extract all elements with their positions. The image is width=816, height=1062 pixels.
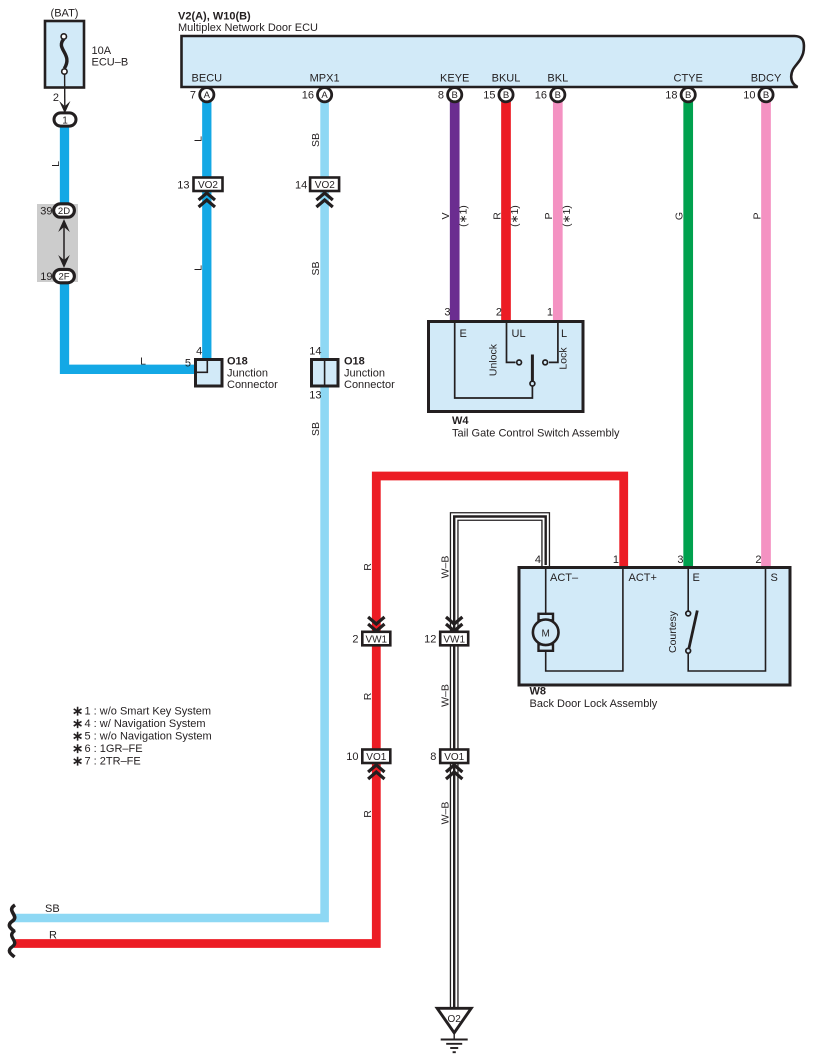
svg-text:W–B: W–B (440, 684, 452, 707)
svg-text:18: 18 (665, 90, 677, 102)
svg-text:10A: 10A (92, 45, 112, 57)
svg-text:B: B (685, 90, 691, 101)
wire W-B white core (454, 517, 546, 1009)
svg-text:VW1: VW1 (443, 634, 465, 645)
pin BKUL circle B (499, 88, 513, 102)
svg-text:O2: O2 (448, 1014, 462, 1025)
svg-text:SB: SB (45, 903, 60, 915)
svg-text:B: B (452, 90, 458, 101)
wire SB from MPX1 pin to left edge exit (light blue) (14, 98, 325, 918)
svg-text:14: 14 (309, 346, 321, 358)
svg-text:B: B (555, 90, 561, 101)
svg-text:Lock: Lock (558, 347, 570, 370)
svg-text:CTYE: CTYE (674, 73, 703, 85)
W4 switch pole (531, 355, 534, 382)
svg-text:10: 10 (346, 751, 358, 763)
svg-text:SB: SB (310, 261, 322, 275)
svg-text:(∗1): (∗1) (561, 205, 573, 227)
fuse 10A ECU-B box (45, 21, 84, 88)
svg-text:MPX1: MPX1 (310, 73, 340, 85)
svg-text:R: R (491, 212, 503, 220)
svg-text:BKUL: BKUL (492, 73, 521, 85)
Multiplex Network Door ECU banner (182, 36, 804, 87)
svg-text:VO1: VO1 (444, 752, 464, 763)
footnote asterisk stars (74, 707, 82, 766)
svg-text:W4: W4 (452, 415, 469, 427)
svg-text:7: 7 (190, 90, 196, 102)
courtesy switch blade (689, 611, 697, 649)
wire L from fuse to connector 2D (blue) (60, 125, 69, 207)
svg-text:B: B (763, 90, 769, 101)
svg-text:3: 3 (677, 554, 683, 566)
svg-text:ACT–: ACT– (550, 572, 579, 584)
svg-text:2: 2 (352, 634, 358, 646)
wire V from KEYE pin to W4 pin 3 (violet) (450, 98, 460, 322)
svg-text:O18: O18 (227, 356, 248, 368)
svg-text:Connector: Connector (227, 379, 278, 391)
svg-text:BKL: BKL (547, 73, 568, 85)
svg-text:Back Door Lock Assembly: Back Door Lock Assembly (530, 698, 658, 710)
svg-text:2D: 2D (58, 206, 70, 217)
junction connector O18 right (312, 360, 339, 387)
svg-text:BECU: BECU (192, 73, 223, 85)
svg-text:VO2: VO2 (315, 180, 335, 191)
break squiggle SB wire (9, 905, 15, 932)
svg-text:L: L (192, 265, 204, 271)
svg-text:O18: O18 (344, 356, 365, 368)
WIRES-LAYER (14, 98, 766, 1008)
svg-text:2F: 2F (58, 272, 69, 283)
arrow into node 1 (59, 101, 70, 113)
svg-text:2: 2 (53, 92, 59, 104)
svg-text:Multiplex Network Door ECU: Multiplex Network Door ECU (178, 22, 318, 34)
svg-text:R: R (362, 810, 374, 818)
connector VW1 pin 2 (368, 617, 384, 624)
svg-text:R: R (362, 563, 374, 571)
svg-text:1: 1 (547, 307, 553, 319)
fuse terminal top (61, 34, 66, 39)
svg-text:ECU–B: ECU–B (92, 57, 129, 69)
svg-text:4 : w/ Navigation System: 4 : w/ Navigation System (85, 718, 206, 730)
fuse element (61, 39, 67, 69)
W8 internal courtesy to S line (688, 569, 765, 671)
svg-text:P: P (751, 212, 763, 219)
connector 2D oval (54, 204, 75, 217)
svg-text:V2(A), W10(B): V2(A), W10(B) (178, 11, 251, 23)
svg-text:(∗1): (∗1) (458, 205, 470, 227)
wire W-B from W8 pin 4 through VW1, VO1 to ground O2 (white-black outer) (454, 517, 546, 1009)
svg-text:7 : 2TR–FE: 7 : 2TR–FE (85, 756, 141, 768)
break squiggle R wire (9, 931, 15, 958)
svg-text:E: E (693, 572, 700, 584)
svg-text:L: L (561, 328, 567, 340)
W8 internal courtesy switch E line (687, 569, 689, 611)
svg-text:39: 39 (40, 206, 52, 218)
connector block 2D/2F gray body (37, 204, 78, 282)
svg-text:Tail Gate Control Switch Assem: Tail Gate Control Switch Assembly (452, 428, 620, 440)
W8 internal ACT- line to motor (545, 569, 547, 614)
svg-text:Connector: Connector (344, 379, 395, 391)
svg-text:BDCY: BDCY (751, 73, 782, 85)
svg-text:Courtesy: Courtesy (667, 610, 679, 653)
svg-text:L: L (192, 136, 204, 142)
svg-text:Unlock: Unlock (488, 343, 500, 376)
svg-text:M: M (542, 628, 550, 639)
junction connector O18 left (196, 360, 223, 387)
W8 Back Door Lock Assembly box (519, 568, 790, 686)
motor M brush bottom (539, 644, 554, 651)
svg-text:16: 16 (302, 90, 314, 102)
svg-text:A: A (321, 90, 328, 101)
svg-text:KEYE: KEYE (440, 73, 469, 85)
svg-text:5: 5 (185, 358, 191, 370)
svg-text:W–B: W–B (440, 556, 452, 579)
node 1 oval (54, 113, 76, 126)
motor M body (533, 620, 559, 646)
wire from fuse to node 1 (64, 75, 66, 107)
motor M brush top (539, 614, 554, 621)
connector VO1 pin 10 (362, 750, 390, 764)
svg-text:V: V (440, 212, 452, 219)
svg-text:15: 15 (483, 90, 495, 102)
svg-text:G: G (674, 212, 686, 220)
svg-text:4: 4 (196, 346, 202, 358)
wire G from CTYE pin to W8 pin 3 (green) (683, 98, 693, 568)
connector 2F oval (54, 269, 75, 282)
svg-text:14: 14 (295, 180, 307, 192)
svg-text:ACT+: ACT+ (629, 572, 657, 584)
svg-text:4: 4 (535, 554, 541, 566)
pin BECU circle A (200, 88, 214, 102)
connector VO2 pin 14 (310, 178, 339, 192)
svg-text:8: 8 (438, 90, 444, 102)
svg-text:SB: SB (310, 133, 322, 147)
ground O2 symbol (437, 1008, 471, 1033)
wire L from BECU pin to junction O18 (blue) (202, 98, 211, 361)
svg-text:1 : w/o Smart Key System: 1 : w/o Smart Key System (85, 706, 212, 718)
fuse terminal bottom (62, 69, 67, 74)
svg-text:VO2: VO2 (198, 180, 218, 191)
svg-text:Junction: Junction (344, 368, 385, 380)
W4 internal L line (549, 323, 558, 362)
svg-text:P: P (543, 212, 555, 219)
svg-text:3: 3 (444, 307, 450, 319)
svg-text:1: 1 (62, 116, 68, 127)
svg-text:13: 13 (309, 390, 321, 402)
svg-text:12: 12 (424, 634, 436, 646)
svg-text:2: 2 (755, 554, 761, 566)
svg-text:13: 13 (177, 180, 189, 192)
connector VO1 pin 8 (440, 750, 468, 764)
pin BDCY circle B (759, 88, 773, 102)
svg-text:19: 19 (40, 271, 52, 283)
svg-text:A: A (204, 90, 211, 101)
wire W-B black stripe (454, 517, 546, 1009)
svg-text:W–B: W–B (440, 802, 452, 825)
wire R from BKUL pin to W4 pin 2 (red) (501, 98, 511, 322)
svg-text:(BAT): (BAT) (51, 8, 79, 20)
wire R from W8 pin 1 ACT+ through VW1, VO1 to left edge exit (red) (14, 476, 624, 944)
connector VW1 pin 12 (446, 617, 462, 624)
W4 Tail Gate Control Switch Assembly box (429, 322, 584, 412)
W4 internal E line (455, 323, 533, 398)
svg-text:16: 16 (535, 90, 547, 102)
wire P from BDCY pin to W8 pin 2 (pink) (761, 98, 771, 568)
svg-text:5 : w/o Navigation System: 5 : w/o Navigation System (85, 731, 212, 743)
svg-text:S: S (771, 572, 778, 584)
svg-text:6 : 1GR–FE: 6 : 1GR–FE (85, 743, 143, 755)
svg-text:E: E (460, 328, 467, 340)
pin MPX1 circle A (318, 88, 332, 102)
double arrow between 2D and 2F (63, 224, 65, 263)
pin BKL circle B (551, 88, 565, 102)
svg-text:Junction: Junction (227, 368, 268, 380)
svg-text:(∗1): (∗1) (509, 205, 521, 227)
svg-text:R: R (362, 692, 374, 700)
svg-text:2: 2 (496, 307, 502, 319)
svg-text:UL: UL (512, 328, 526, 340)
svg-text:SB: SB (310, 422, 322, 436)
svg-text:L: L (140, 356, 146, 368)
pin CTYE circle B (681, 88, 695, 102)
W4 internal UL line (507, 323, 516, 362)
svg-text:R: R (49, 930, 57, 942)
svg-text:8: 8 (430, 751, 436, 763)
svg-text:1: 1 (613, 554, 619, 566)
svg-text:VO1: VO1 (366, 752, 386, 763)
wire L from connector 2F to junction O18 (blue) (65, 280, 196, 369)
svg-text:10: 10 (743, 90, 755, 102)
W8 internal motor to ACT+ line (546, 569, 623, 671)
pin KEYE circle B (448, 88, 462, 102)
wire P from BKL pin to W4 pin 1 (pink) (553, 98, 563, 322)
svg-text:L: L (50, 161, 62, 167)
svg-text:W8: W8 (530, 686, 547, 698)
connector VO2 pin 13 (194, 178, 223, 192)
svg-text:B: B (503, 90, 509, 101)
svg-text:VW1: VW1 (365, 634, 387, 645)
